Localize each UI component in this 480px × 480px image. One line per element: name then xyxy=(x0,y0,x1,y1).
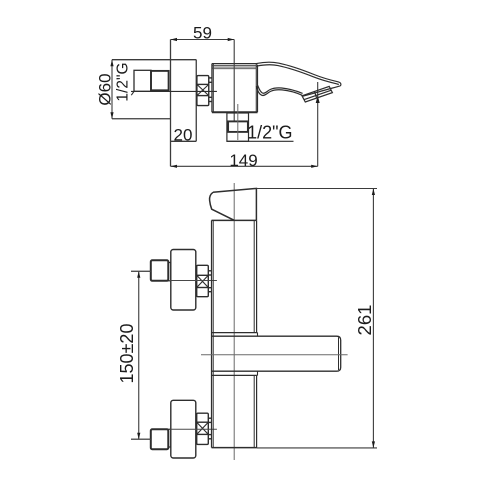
svg-text:149: 149 xyxy=(229,151,257,170)
svg-text:150±20: 150±20 xyxy=(117,324,137,384)
svg-text:1/2"G: 1/2"G xyxy=(114,62,131,101)
svg-text:20: 20 xyxy=(174,125,193,144)
svg-text:Ø60: Ø60 xyxy=(96,73,115,105)
svg-text:59: 59 xyxy=(193,23,212,42)
svg-text:1/2"G: 1/2"G xyxy=(247,123,292,143)
svg-text:261: 261 xyxy=(354,305,375,336)
